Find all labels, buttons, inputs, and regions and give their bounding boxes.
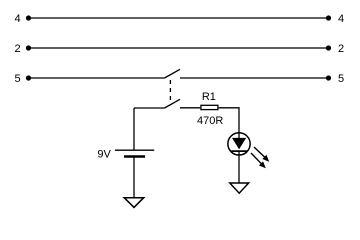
- LED D1 cathode bar: [231, 150, 247, 152]
- svg-text:5: 5: [338, 73, 344, 85]
- wire net 5 right segment: [180, 77, 329, 79]
- wire net 5 left segment: [29, 77, 165, 79]
- wire LED cathode to ground: [238, 151, 240, 183]
- terminal dot net 2 left: [26, 45, 31, 50]
- svg-text:R1: R1: [202, 91, 216, 103]
- wire battery top to switch pole B: [134, 107, 165, 109]
- terminal dot net 4 right: [326, 15, 331, 20]
- ground symbol at battery: [124, 198, 144, 208]
- svg-text:4: 4: [14, 13, 20, 25]
- resistor R1 body: [201, 105, 218, 109]
- battery BT1 positive plate: [115, 149, 154, 151]
- LED D1 emission arrow 2: [251, 153, 266, 168]
- wire net 2: [29, 47, 329, 49]
- wire switch pole B to resistor R1: [180, 107, 200, 109]
- wire net 4: [29, 17, 329, 19]
- terminal dot net 4 left: [26, 15, 31, 20]
- switch pole B blade: [165, 99, 181, 108]
- LED D1 circle: [228, 133, 250, 155]
- wire battery negative to ground: [133, 157, 135, 198]
- svg-text:5: 5: [14, 73, 20, 85]
- terminal dot net 2 right: [326, 45, 331, 50]
- svg-text:2: 2: [14, 43, 20, 55]
- wire switch pole B to battery positive: [133, 108, 135, 150]
- switch pole A blade: [165, 69, 181, 78]
- switch gang dashed link: [169, 80, 171, 101]
- ground symbol at LED: [230, 183, 249, 193]
- wire resistor R1 to LED corner: [219, 108, 239, 138]
- terminal dot net 5 right: [326, 75, 331, 80]
- svg-text:2: 2: [338, 43, 344, 55]
- svg-text:4: 4: [338, 13, 344, 25]
- LED D1 anode triangle: [232, 138, 246, 149]
- svg-text:9V: 9V: [97, 148, 111, 160]
- battery BT1 negative plate: [124, 155, 145, 157]
- terminal dot net 5 left: [26, 75, 31, 80]
- svg-text:470R: 470R: [197, 115, 223, 127]
- LED D1 emission arrow 1: [254, 147, 269, 162]
